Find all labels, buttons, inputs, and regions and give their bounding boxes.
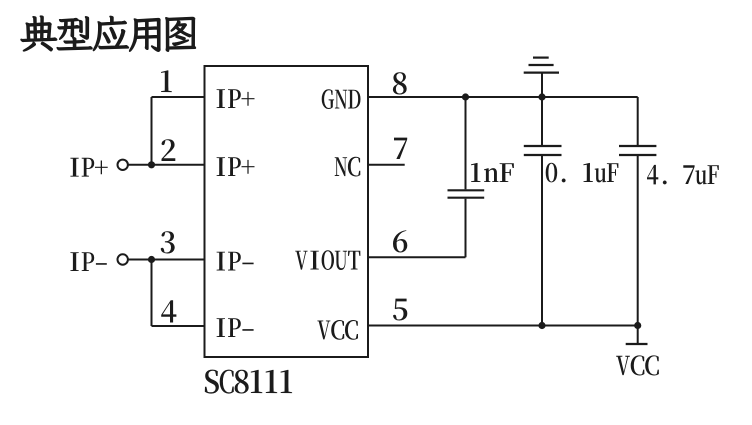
junction dot GND/C1 bbox=[462, 93, 469, 100]
junction dot pin3 node bbox=[148, 256, 155, 263]
wire pin3 horizontal from IP- terminal bbox=[128, 259, 204, 261]
IC body U1 bbox=[205, 66, 369, 357]
wire C1 top lead bbox=[465, 97, 467, 189]
wire C2 top lead bbox=[541, 97, 543, 146]
wire pin5 VCC net horizontal bbox=[368, 325, 638, 327]
capacitor C1 1nF plates bbox=[448, 190, 485, 197]
pin7 label NC bbox=[335, 157, 361, 177]
wire C3 bottom lead bbox=[637, 155, 639, 326]
capacitor C2 0.1uF plates bbox=[524, 146, 562, 155]
wire ground stub bbox=[541, 73, 543, 97]
wire C1 bottom lead bbox=[465, 199, 467, 258]
wire pin4 horizontal bbox=[152, 325, 205, 327]
pin number 4 bbox=[161, 300, 176, 322]
pin8 label GND bbox=[322, 89, 361, 109]
pin number 7 bbox=[394, 138, 407, 159]
IP+ input terminal circle bbox=[118, 160, 128, 170]
wire pin7 NC stub bbox=[368, 164, 405, 166]
pin number 6 bbox=[393, 230, 407, 252]
wire C2 bottom lead bbox=[541, 155, 543, 326]
pin5 label VCC bbox=[317, 320, 358, 340]
IC name SC8111 bbox=[205, 370, 292, 394]
wire pin2 horizontal from IP+ terminal bbox=[128, 164, 204, 166]
value label 4.7uF bbox=[647, 165, 719, 185]
VCC terminal bar bbox=[626, 343, 648, 345]
junction dot pin2 node bbox=[148, 161, 155, 168]
pin1 label IP+ bbox=[217, 89, 255, 108]
junction dot VCC/C2 bbox=[538, 322, 545, 329]
pin6 label VIOUT bbox=[295, 250, 360, 270]
IP- input terminal circle bbox=[118, 254, 128, 264]
pin number 8 bbox=[393, 72, 407, 94]
label IP- external left bbox=[70, 252, 106, 271]
pin2 label IP+ bbox=[217, 157, 255, 176]
capacitor C3 4.7uF plates bbox=[619, 146, 656, 155]
value label 0.1uF bbox=[546, 163, 619, 183]
pin number 1 bbox=[161, 70, 172, 92]
pin3 label IP- bbox=[217, 252, 254, 271]
pin number 3 bbox=[161, 231, 175, 253]
pin number 5 bbox=[393, 299, 407, 321]
wire VCC terminal stub bbox=[637, 326, 639, 345]
title 典型应用图 bbox=[21, 16, 196, 52]
junction dot VCC/C3 bbox=[634, 322, 641, 329]
wire pin1 horizontal bbox=[152, 96, 205, 98]
pin number 2 bbox=[162, 139, 176, 161]
wire pin1-pin2 vertical branch bbox=[151, 97, 153, 165]
label IP+ external left bbox=[70, 158, 107, 177]
wire pin3-pin4 vertical branch bbox=[151, 260, 153, 327]
junction dot GND/C2 bbox=[538, 93, 545, 100]
wire C3 top lead bbox=[637, 97, 639, 146]
label VCC supply bbox=[616, 355, 659, 375]
wire pin6 VIOUT horizontal bbox=[368, 256, 466, 258]
ground symbol bbox=[524, 58, 559, 73]
value label 1nF bbox=[471, 163, 514, 182]
pin4 label IP- bbox=[217, 318, 254, 337]
wire pin8 GND net horizontal bbox=[368, 96, 638, 98]
